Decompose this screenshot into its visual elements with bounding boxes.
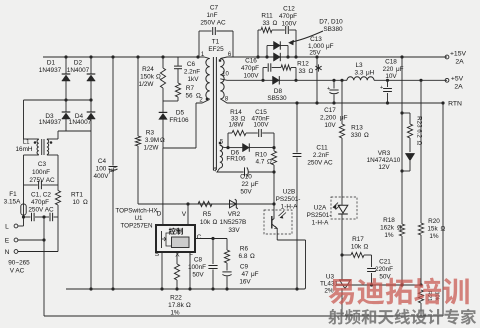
svg-text:TOP257EN: TOP257EN [120,223,153,230]
svg-text:100V: 100V [254,122,270,129]
svg-text:25V: 25V [309,50,321,57]
svg-text:1-H-A: 1-H-A [312,220,329,227]
svg-text:R10: R10 [255,152,267,159]
svg-text:D1: D1 [47,60,56,67]
svg-text:162k: 162k [380,225,395,232]
svg-text:1%: 1% [170,310,180,317]
svg-text:1N4007: 1N4007 [67,67,90,74]
svg-text:+15V: +15V [450,51,467,58]
svg-text:2.2nF: 2.2nF [313,152,329,159]
svg-text:Ω: Ω [83,199,88,206]
svg-text:Ω: Ω [397,225,402,232]
svg-text:250V AC: 250V AC [307,160,333,167]
svg-text:6.8: 6.8 [239,253,248,260]
svg-text:10k: 10k [200,219,211,226]
svg-text:PS2501-: PS2501- [307,212,332,219]
svg-text:VR2: VR2 [228,211,241,218]
svg-text:C17: C17 [324,107,336,114]
svg-text:1N5257B: 1N5257B [220,219,247,226]
svg-text:275V AC: 275V AC [29,177,55,184]
svg-text:1/8W: 1/8W [229,122,245,129]
svg-text:Ω: Ω [441,226,446,233]
svg-text:R6: R6 [240,246,249,253]
svg-text:100V: 100V [282,21,298,28]
svg-text:1kV: 1kV [187,76,199,83]
svg-text:16mH: 16mH [15,146,32,153]
svg-text:RT1: RT1 [71,192,83,199]
svg-text:33: 33 [298,68,306,75]
svg-text:Ω: Ω [309,68,314,75]
svg-text:33V: 33V [228,227,240,234]
svg-text:50V: 50V [240,189,252,196]
svg-text:250V AC: 250V AC [28,207,54,214]
svg-text:μF: μF [109,167,117,174]
svg-text:50V: 50V [192,272,204,279]
svg-text:Ω: Ω [364,244,369,251]
svg-text:10V: 10V [385,73,397,80]
svg-text:E: E [5,237,10,244]
svg-text:C11: C11 [316,145,328,152]
svg-text:D5: D5 [176,110,185,117]
svg-text:33: 33 [262,20,270,27]
svg-text:R11: R11 [261,13,273,20]
svg-text:2,200: 2,200 [320,115,336,122]
svg-text:470pF: 470pF [241,65,259,72]
svg-text:N: N [5,249,10,256]
svg-text:Ω: Ω [186,302,191,309]
svg-text:L1: L1 [22,139,30,146]
svg-text:L: L [5,223,9,230]
svg-text:3.9M: 3.9M [145,137,159,144]
svg-text:TOPSwitch-HX: TOPSwitch-HX [115,208,158,215]
svg-text:150k: 150k [140,74,155,81]
svg-text:C1, C2: C1, C2 [31,192,51,199]
svg-text:μF: μF [326,43,334,50]
svg-text:SB380: SB380 [323,26,343,33]
svg-text:RTN: RTN [448,101,462,108]
svg-text:100V: 100V [244,73,260,80]
svg-text:R3: R3 [146,130,155,137]
svg-text:16V: 16V [239,279,251,286]
svg-text:V AC: V AC [10,268,25,275]
svg-text:1N4937: 1N4937 [39,119,62,126]
svg-text:U2A: U2A [314,205,327,212]
svg-text:X: X [175,252,180,259]
svg-text:Ω: Ω [213,219,218,226]
svg-text:Ω: Ω [416,141,423,146]
svg-text:C4: C4 [98,158,107,165]
svg-text:+5V: +5V [451,76,464,83]
svg-text:C18: C18 [385,59,397,66]
svg-text:R20: R20 [428,218,440,225]
svg-text:C9: C9 [240,264,249,271]
svg-text:+: + [380,85,383,91]
svg-text:Ω: Ω [156,74,161,81]
svg-text:C16: C16 [245,58,257,65]
svg-text:22: 22 [241,181,249,188]
svg-text:2A: 2A [454,84,463,91]
svg-text:100nF: 100nF [32,169,50,176]
svg-text:12V: 12V [378,164,390,171]
svg-text:D2: D2 [74,60,83,67]
svg-text:U1: U1 [134,215,143,222]
svg-text:D8: D8 [274,88,283,95]
svg-text:C12: C12 [283,6,295,13]
svg-text:1/2W: 1/2W [144,145,160,152]
svg-text:C7: C7 [210,5,219,12]
svg-text:μF: μF [396,66,404,73]
svg-text:Ω: Ω [241,116,246,123]
svg-text:S: S [155,251,160,258]
svg-text:56: 56 [185,93,193,100]
svg-text:2A: 2A [455,59,464,66]
svg-text:R22: R22 [170,295,182,302]
svg-text:15k: 15k [427,226,438,233]
svg-text:R12: R12 [297,61,309,68]
svg-text:R24: R24 [142,66,154,73]
svg-text:Ω: Ω [364,132,369,139]
svg-text:10V: 10V [324,122,336,129]
svg-text:330: 330 [351,132,362,139]
svg-text:+: + [327,86,330,92]
svg-text:μH: μH [366,70,375,77]
svg-text:220nF: 220nF [375,266,393,273]
svg-text:1-H-A: 1-H-A [281,204,298,211]
svg-text:3.15A: 3.15A [4,199,21,206]
svg-text:1/2W: 1/2W [139,81,155,88]
svg-text:EF25: EF25 [208,46,224,53]
svg-text:C21: C21 [379,259,391,266]
svg-text:1%: 1% [384,232,394,239]
svg-text:FR106: FR106 [169,117,189,124]
svg-text:10: 10 [72,199,80,206]
svg-text:400V: 400V [94,173,110,180]
svg-text:1N4937: 1N4937 [39,67,62,74]
svg-text:C8: C8 [194,257,203,264]
svg-text:250V AC: 250V AC [200,20,226,27]
svg-text:Ω: Ω [160,137,165,144]
svg-text:R18: R18 [383,217,395,224]
svg-text:2%: 2% [324,288,334,295]
svg-text:C6: C6 [187,61,196,68]
svg-text:C13: C13 [310,36,322,43]
svg-text:R7: R7 [186,85,195,92]
svg-text:1nF: 1nF [206,12,217,19]
svg-text:R13: R13 [351,125,363,132]
svg-text:R5: R5 [203,211,212,218]
svg-text:SB530: SB530 [267,95,287,102]
svg-text:220: 220 [383,66,394,73]
svg-text:10: 10 [222,72,229,78]
svg-text:R17: R17 [352,236,364,243]
svg-text:Ω: Ω [267,159,272,166]
svg-text:4.7: 4.7 [256,159,265,166]
svg-text:C: C [197,234,202,241]
svg-text:90~265: 90~265 [8,260,30,267]
svg-text:U2B: U2B [283,189,295,196]
svg-text:C3: C3 [38,161,47,168]
svg-text:VR3: VR3 [378,150,391,157]
svg-text:2.2nF: 2.2nF [184,69,200,76]
svg-text:μF: μF [251,181,259,188]
svg-text:1N4742A10: 1N4742A10 [367,157,401,164]
svg-text:R23 6.2: R23 6.2 [416,116,423,138]
svg-text:L3: L3 [355,62,363,69]
svg-text:470pF: 470pF [31,199,49,206]
svg-text:Ω: Ω [273,20,278,27]
svg-text:μF: μF [340,115,348,122]
svg-text:10k: 10k [351,244,362,251]
svg-text:Ω: Ω [250,253,255,260]
svg-text:F1: F1 [9,191,17,198]
svg-text:μF: μF [251,271,259,278]
svg-text:C10: C10 [240,174,252,181]
svg-text:1N4007: 1N4007 [69,119,92,126]
svg-text:17.8k: 17.8k [168,302,184,309]
svg-text:FR106: FR106 [226,156,246,163]
svg-text:100nF: 100nF [188,264,206,271]
svg-text:47: 47 [241,271,249,278]
svg-text:V: V [182,211,187,218]
svg-text:D7, D10: D7, D10 [319,19,343,26]
svg-text:1%: 1% [429,233,439,240]
svg-text:3.3: 3.3 [355,70,364,77]
svg-text:470pF: 470pF [279,13,297,20]
svg-text:100: 100 [96,166,107,173]
svg-text:T1: T1 [212,39,220,46]
